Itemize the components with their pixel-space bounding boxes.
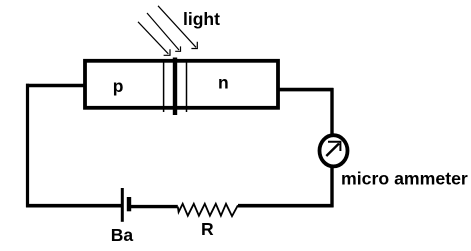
battery Ba: short plate (-)	[127, 197, 131, 211]
battery Ba: long plate (+)	[121, 188, 124, 222]
wire: left vertical rail	[26, 84, 29, 207]
resistor R (zigzag)	[178, 204, 238, 216]
wire: bottom left segment to battery	[26, 204, 122, 208]
svg-text:R: R	[201, 219, 214, 239]
wire: right vertical rail upper (top wire to ammeter)	[330, 88, 333, 135]
svg-text:Ba: Ba	[111, 225, 134, 245]
wire: left horizontal from diode to left rail	[26, 84, 84, 88]
light ray arrow 3 (rightmost)	[158, 6, 197, 49]
junction barrier line (thick)	[173, 58, 177, 116]
svg-text:n: n	[218, 72, 229, 92]
junction depletion line left (thin)	[163, 60, 165, 112]
light ray arrow 2 (middle)	[147, 13, 181, 51]
svg-text:p: p	[113, 76, 124, 96]
micro ammeter M1	[320, 135, 348, 166]
junction depletion line right (thin)	[186, 60, 188, 112]
wire: battery to resistor segment	[129, 205, 178, 208]
wire: right vertical rail lower (ammeter to bottom)	[330, 167, 333, 207]
svg-text:micro ammeter: micro ammeter	[341, 168, 468, 188]
wire: resistor to right rail segment	[238, 204, 333, 208]
photodiode body (p-n junction box)	[85, 61, 278, 108]
svg-text:light: light	[183, 9, 220, 29]
light ray arrow 1 (leftmost)	[138, 22, 170, 56]
wire: right horizontal from diode to right rail	[278, 88, 333, 92]
